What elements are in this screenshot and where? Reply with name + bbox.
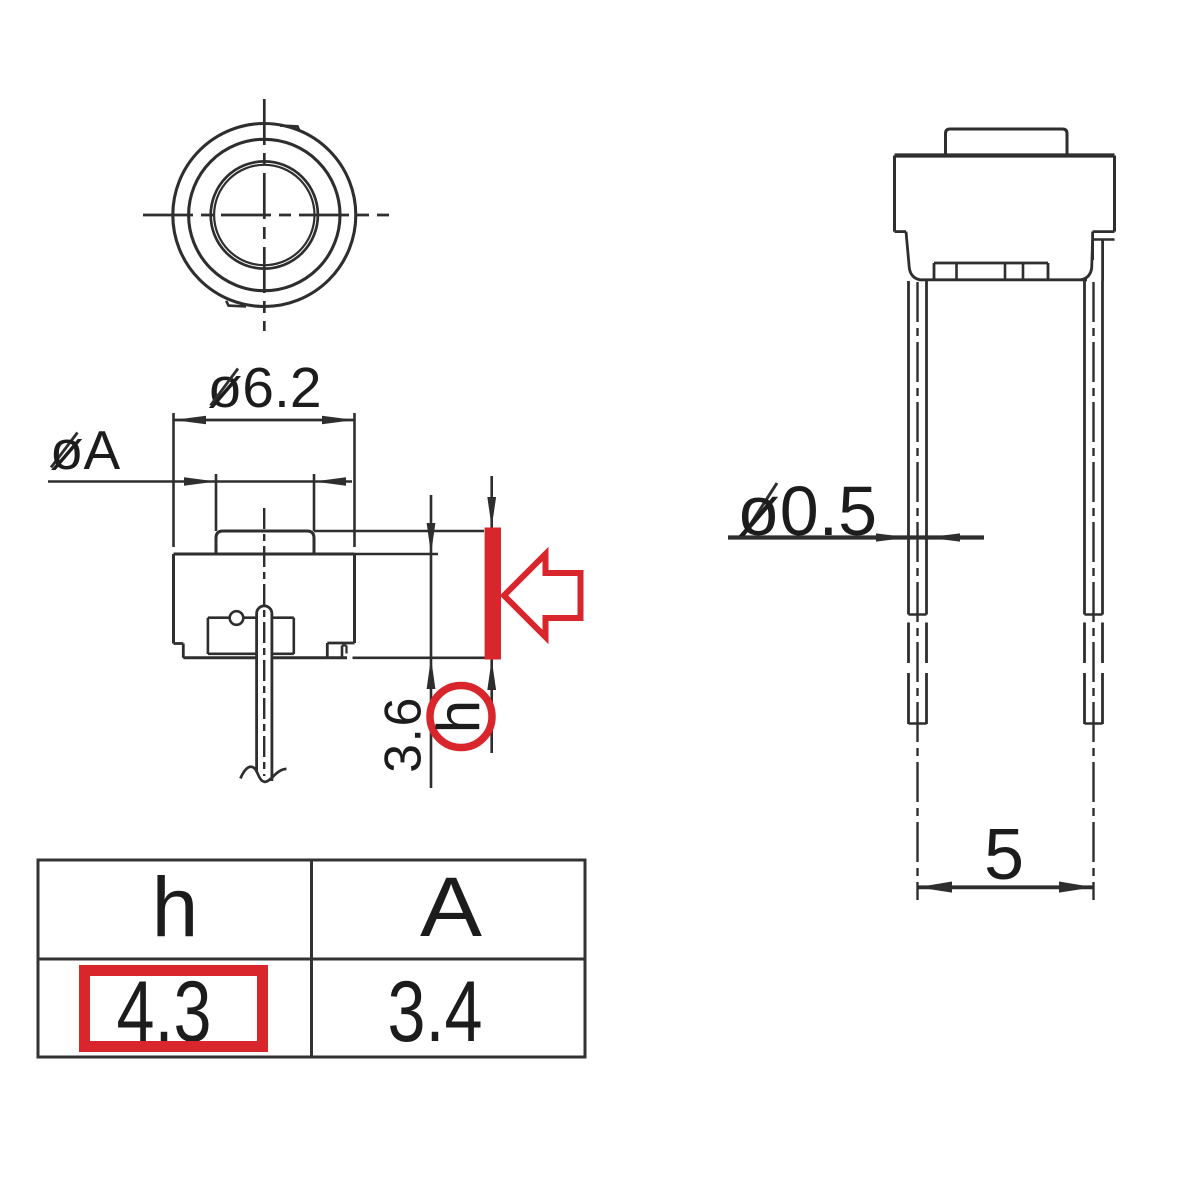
svg-text:h: h <box>425 700 492 733</box>
svg-text:3.4: 3.4 <box>388 964 483 1060</box>
svg-text:h: h <box>152 860 199 954</box>
svg-text:øA: øA <box>50 419 121 481</box>
svg-text:3.6: 3.6 <box>375 696 433 773</box>
svg-text:A: A <box>420 860 482 954</box>
svg-text:5: 5 <box>984 815 1024 895</box>
svg-text:ø0.5: ø0.5 <box>737 472 877 550</box>
